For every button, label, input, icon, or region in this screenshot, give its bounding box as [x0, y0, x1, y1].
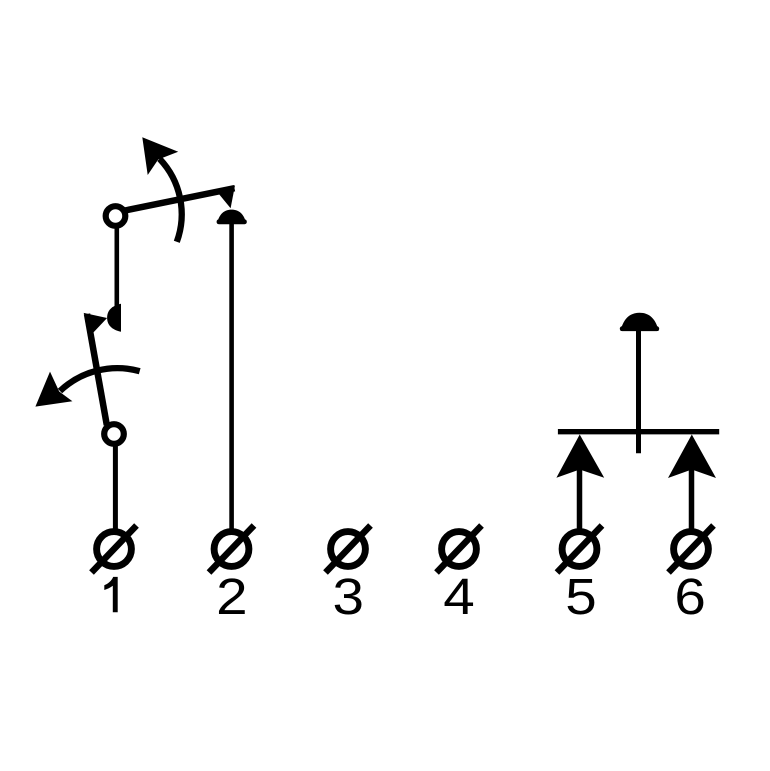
- terminal 4: [437, 526, 482, 573]
- motion arrow head A2: [35, 372, 72, 407]
- svg-text:3: 3: [332, 568, 363, 625]
- svg-text:6: 6: [674, 568, 705, 625]
- terminal 2: [209, 526, 254, 573]
- contact dome D2 (lower fixed contact): [107, 304, 121, 332]
- busbar (right linkage bar): [558, 429, 719, 434]
- svg-text:5: 5: [565, 568, 596, 625]
- label 1: [104, 577, 117, 612]
- pivot P1 (upper switch pivot circle): [106, 206, 126, 226]
- switch blade S2: [87, 314, 107, 425]
- motion arrow arc A1 (upper switch): [160, 159, 182, 242]
- arrowhead terminal 5: [556, 435, 604, 478]
- wire terminal 5 arrow: [577, 468, 583, 531]
- arrowhead terminal 6: [668, 435, 716, 479]
- switch blade S1: [124, 188, 235, 211]
- svg-text:4: 4: [443, 568, 474, 625]
- blade S1 arrowhead: [215, 185, 235, 208]
- pivot P2 (lower switch pivot circle): [104, 424, 124, 444]
- terminal 1: [92, 526, 137, 573]
- contact dome D1 (terminal 2 fixed contact): [217, 210, 246, 224]
- svg-text:2: 2: [216, 568, 247, 625]
- blade S2 arrowhead: [84, 313, 108, 334]
- terminal 3: [326, 526, 371, 573]
- centre stem of busbar: [636, 330, 641, 453]
- wire contact D1 to terminal 2: [229, 221, 234, 531]
- terminal 6: [669, 526, 714, 573]
- wire lower contact to upper pivot: [115, 227, 120, 309]
- contact dome D3 (busbar top contact): [621, 313, 659, 331]
- wire terminal 6 arrow: [689, 468, 695, 531]
- motion arrow arc A2 (lower switch): [60, 368, 140, 391]
- terminal 5: [557, 526, 602, 573]
- motion arrow head A1: [142, 137, 178, 175]
- wire terminal 1 to lower pivot: [113, 446, 118, 530]
